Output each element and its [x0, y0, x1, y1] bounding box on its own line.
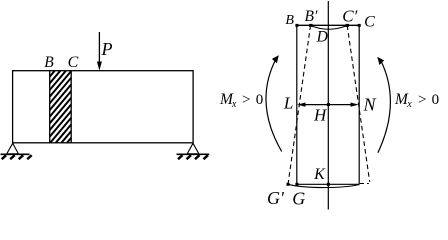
svg-text:N: N — [362, 95, 376, 115]
left support hatching — [2, 155, 32, 159]
bottom edge G rightwards — [297, 183, 359, 185]
svg-text:D: D — [316, 28, 328, 45]
dot C' — [346, 24, 349, 27]
top edge B to C — [297, 24, 359, 26]
right edge C down — [358, 25, 360, 184]
deformed top edge B' D C' — [311, 26, 348, 30]
left edge B to G — [296, 25, 298, 184]
deformed bottom edge G' K curve — [288, 184, 360, 187]
svg-text:B: B — [44, 54, 54, 71]
vertical axis of section — [327, 1, 329, 210]
beam outline — [13, 71, 194, 143]
neutral axis arrow L N — [297, 103, 359, 107]
svg-text:K: K — [313, 166, 326, 183]
svg-text:P: P — [101, 39, 113, 59]
left moment arrowhead — [272, 55, 279, 63]
section strip right edge at C — [70, 71, 72, 143]
left support ground line — [1, 153, 30, 155]
svg-text:L: L — [283, 94, 293, 113]
section strip hatching BC — [0, 71, 128, 143]
right support triangle — [187, 143, 199, 154]
dot C — [358, 24, 361, 27]
load arrow P — [97, 32, 102, 71]
svg-text:G: G — [292, 189, 305, 209]
svg-text:B: B — [285, 13, 294, 28]
svg-text:C: C — [68, 54, 79, 71]
dot H — [327, 103, 330, 106]
deformed right edge C' dashed — [347, 26, 370, 182]
dot B — [295, 24, 298, 27]
left support triangle — [7, 143, 19, 154]
right moment arc — [378, 59, 390, 153]
svg-text:C: C — [364, 14, 375, 31]
right support hatching — [178, 155, 208, 159]
svg-text:Mx>0: Mx>0 — [219, 91, 263, 110]
dashed bottom right stub — [360, 183, 369, 185]
svg-text:G′: G′ — [267, 188, 285, 208]
dot G' — [287, 183, 290, 186]
svg-text:Mx>0: Mx>0 — [394, 91, 439, 110]
svg-text:C′: C′ — [342, 7, 357, 26]
section strip left edge at B — [49, 71, 51, 143]
dot B' — [309, 24, 312, 27]
dot K — [327, 183, 330, 186]
right moment arrowhead — [377, 57, 384, 65]
dot G — [295, 183, 298, 186]
right support ground line — [177, 153, 210, 155]
svg-text:B′: B′ — [305, 8, 318, 25]
deformed left edge B'G' dashed — [288, 26, 311, 185]
svg-text:H: H — [313, 106, 328, 125]
left moment arc — [266, 59, 282, 152]
